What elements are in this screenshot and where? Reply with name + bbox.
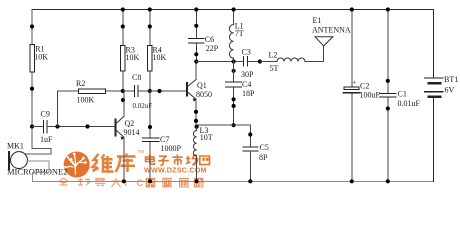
node dot C5 upper joint [248, 132, 252, 136]
node dot left column at C9 wire [30, 124, 34, 128]
svg-text:10K: 10K [34, 53, 48, 62]
svg-text:30P: 30P [241, 70, 254, 79]
svg-text:18P: 18P [242, 89, 255, 98]
svg-text:ANTENNA: ANTENNA [312, 26, 351, 35]
svg-text:10K: 10K [126, 53, 140, 62]
node dot L3 ground [195, 179, 199, 183]
watermark bottom row [59, 178, 121, 187]
microphone MK1 [7, 141, 67, 176]
resistor R2 [58, 79, 123, 127]
node dot C2 top rail [350, 7, 354, 11]
node dot C7 ground [148, 179, 152, 183]
watermark big text wei [93, 154, 114, 172]
node dot C5 ground [248, 179, 252, 183]
wire C9 to Q2 base [47, 126, 115, 128]
svg-text:10K: 10K [153, 53, 167, 62]
svg-text:8050: 8050 [196, 90, 212, 99]
svg-text:C6: C6 [205, 35, 214, 44]
node dot C1 upper joint [386, 79, 390, 83]
svg-text:C9: C9 [41, 110, 50, 119]
svg-text:Q1: Q1 [197, 81, 207, 90]
node dot R4 bottom junction [148, 89, 152, 93]
svg-text:6V: 6V [445, 86, 455, 95]
svg-text:+: + [353, 79, 357, 87]
svg-text:MK1: MK1 [7, 141, 24, 150]
svg-text:7T: 7T [235, 29, 244, 38]
node dot R3 top [121, 7, 125, 11]
wire left column R1 [25, 10, 51, 155]
node dot C3 right joint [258, 59, 262, 63]
node dot L1 top rail [232, 7, 236, 11]
node dot Q1 collector junction [194, 59, 198, 63]
svg-text:10T: 10T [200, 133, 213, 142]
node dot C6 lower joint [194, 52, 198, 56]
capacitor C6 [189, 10, 219, 62]
node dot Q2 emitter ground [122, 179, 126, 183]
node dot L1 bottom joint2 [232, 69, 236, 73]
right battery column wire [433, 10, 435, 182]
node dot C6 top rail [194, 7, 198, 11]
node dot R4 top [148, 7, 152, 11]
transistor Q1 [186, 62, 212, 126]
inductor L2 [260, 51, 324, 74]
svg-text:Q2: Q2 [125, 119, 135, 128]
capacitor C2 electrolytic [343, 10, 380, 182]
node dot C1 ground [386, 179, 390, 183]
capacitor C1 [380, 10, 421, 182]
antenna E1 [312, 16, 351, 62]
bottom ground rail wire [33, 180, 434, 182]
svg-text:C7: C7 [160, 135, 169, 144]
node dot R3 bottom junction [121, 89, 125, 93]
node dot R2 branch [55, 124, 59, 128]
svg-text:C1: C1 [398, 90, 407, 99]
wire collector node to C3 [196, 61, 243, 63]
node dot L3 top [195, 125, 199, 129]
node dot base wire joint [157, 89, 161, 93]
svg-text:C4: C4 [242, 80, 251, 89]
svg-text:WWW.DZSC.COM: WWW.DZSC.COM [144, 166, 207, 175]
svg-text:R2: R2 [76, 79, 85, 88]
inductor L1 [229, 10, 243, 62]
node dot C2 ground [350, 179, 354, 183]
node dot C7 upper joint [148, 125, 152, 129]
watermark logo circle [64, 152, 90, 178]
transistor Q2 [115, 91, 140, 181]
inductor L3 [193, 126, 212, 181]
capacitor C8 [123, 73, 187, 110]
battery BT1 [425, 75, 459, 97]
svg-text:5T: 5T [270, 64, 279, 73]
top power rail wire [32, 9, 434, 11]
svg-text:C2: C2 [360, 82, 369, 91]
node dot R3 upper joint [121, 24, 125, 28]
resistor R4 [148, 10, 167, 92]
svg-text:MICROPHONE2: MICROPHONE2 [7, 167, 67, 177]
svg-text:C5: C5 [260, 143, 269, 152]
svg-text:9014: 9014 [124, 128, 140, 137]
node dot C6 upper joint [194, 24, 198, 28]
svg-text:0.01uF: 0.01uF [398, 99, 421, 108]
svg-text:BT1: BT1 [444, 75, 458, 84]
node dot Q1 emitter joint1 [194, 110, 198, 114]
capacitor C7 [143, 91, 182, 181]
watermark text dian zi shi chang wang [146, 155, 210, 166]
node dot Q1 emitter joint2 [194, 119, 198, 123]
capacitor C5 [243, 143, 269, 181]
wire mic bottom to ground [27, 161, 49, 181]
svg-text:8P: 8P [259, 153, 268, 162]
node dot joint on base wire [85, 124, 89, 128]
svg-text:C3: C3 [242, 48, 251, 57]
node dot C1 lower joint [386, 106, 390, 110]
capacitor C4 [226, 62, 256, 126]
capacitor C3 [241, 48, 260, 80]
svg-text:L2: L2 [269, 51, 278, 60]
node dot Q2 collector joint [121, 98, 125, 102]
svg-text:0.02uF: 0.02uF [133, 102, 153, 110]
node dot C4 lower joint2 [232, 104, 236, 108]
wire emitter node to C5 [196, 125, 250, 147]
svg-text:C8: C8 [132, 73, 141, 82]
svg-text:100uF: 100uF [360, 91, 381, 100]
svg-text:1000P: 1000P [161, 144, 182, 153]
node dot R4 upper joint [148, 24, 152, 28]
node dot left column upper [30, 24, 34, 28]
svg-text:1uF: 1uF [40, 135, 53, 144]
svg-text:TM: TM [138, 149, 145, 154]
svg-text:22P: 22P [206, 44, 219, 53]
node dot C4 lower joint [232, 97, 236, 101]
capacitor C9 [32, 110, 58, 145]
resistor R3 [121, 10, 140, 92]
watermark big text ku [116, 154, 136, 173]
node dot left column joint [30, 87, 34, 91]
node dot C4 wire junction [232, 123, 236, 127]
svg-text:C: C [137, 178, 144, 188]
svg-text:100K: 100K [77, 96, 95, 105]
node dot L1 bottom junction [232, 59, 236, 63]
svg-text:E1: E1 [313, 16, 322, 25]
resistor R1 [30, 44, 48, 72]
node dot C1 top rail [386, 7, 390, 11]
